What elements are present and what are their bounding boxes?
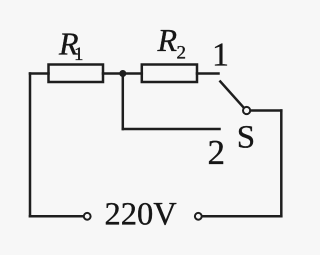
svg-text:2: 2: [177, 43, 187, 64]
svg-text:R: R: [157, 22, 178, 58]
svg-text:S: S: [237, 120, 255, 156]
svg-text:1: 1: [212, 37, 229, 74]
svg-text:2: 2: [208, 133, 226, 172]
svg-text:1: 1: [74, 44, 84, 65]
svg-text:220V: 220V: [105, 197, 178, 233]
